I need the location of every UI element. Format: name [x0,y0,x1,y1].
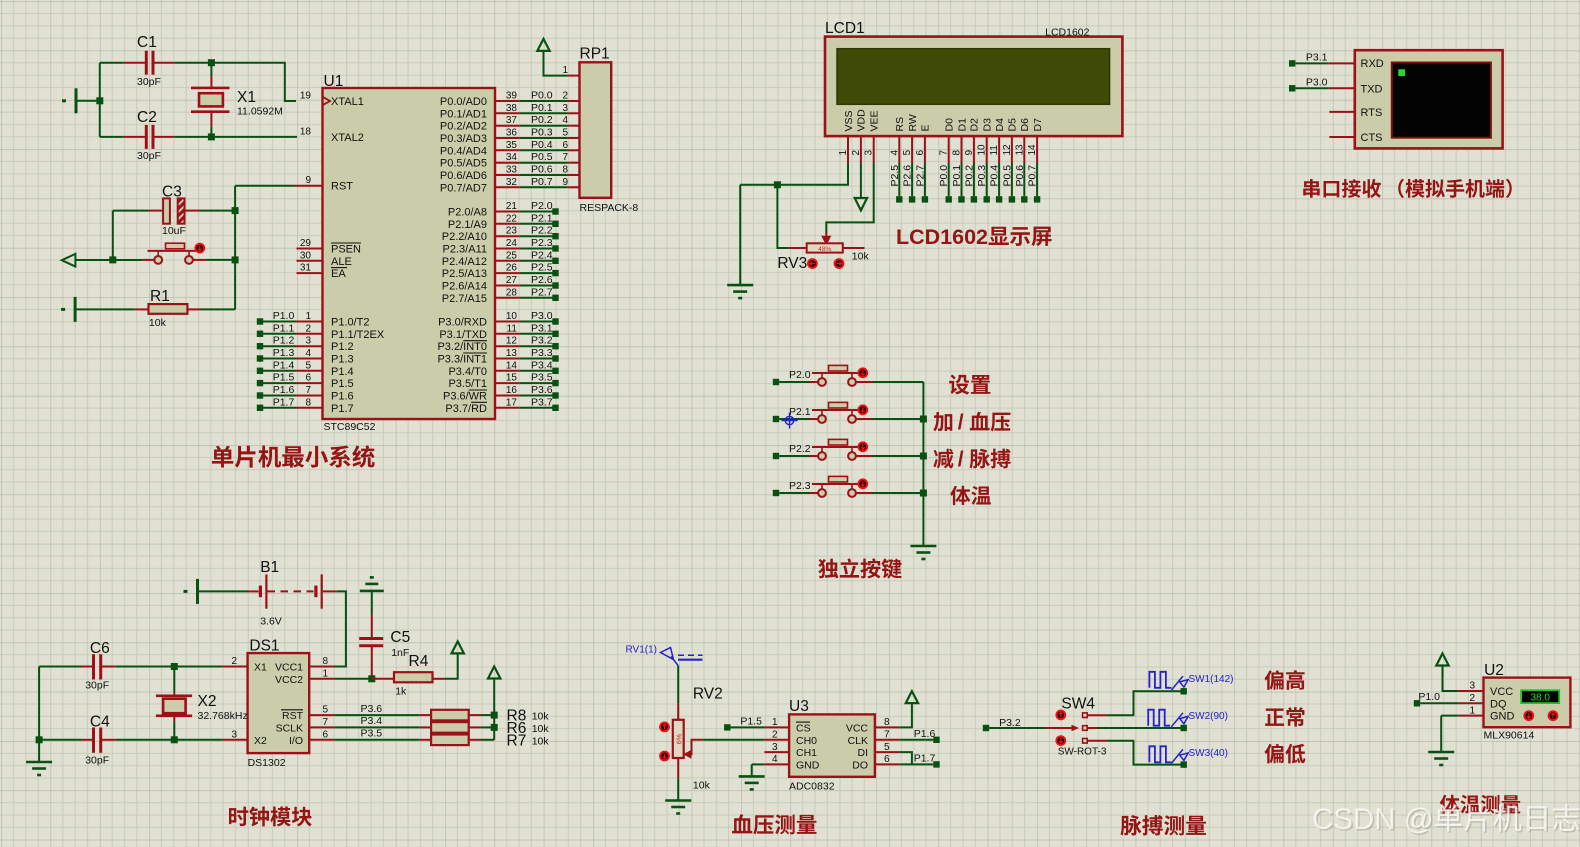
svg-text:R4: R4 [409,653,429,670]
node P0.4 terminal (LCD) [996,196,1002,202]
svg-text:6: 6 [562,140,568,151]
svg-text:30: 30 [300,250,312,261]
junction reset node [109,256,116,263]
rotary switch SW4 pole [1047,725,1087,732]
wire R8 to bus [481,714,494,716]
node P0.2 terminal (LCD) [971,196,977,202]
wire C3 left [113,210,149,212]
wire net P1.7 [263,407,296,409]
svg-text:38.0: 38.0 [1530,692,1550,703]
C1 right lead [154,62,174,64]
wire power to U2 VCC [1443,666,1459,692]
svg-text:P3.7/RD: P3.7/RD [445,403,487,415]
svg-text:P0.7: P0.7 [1027,165,1039,187]
svg-text:D6: D6 [1019,118,1031,132]
pulse generator icon SW1 [1149,672,1171,688]
node P3.1 terminal [552,331,558,337]
wire net P1.2 [263,345,296,347]
U1 P0.0 pin stub [495,100,520,102]
svg-text:11.0592M: 11.0592M [237,106,283,118]
svg-text:39: 39 [506,91,518,102]
svg-text:21: 21 [506,201,518,212]
junction key bus 3 [920,490,927,497]
svg-text:3: 3 [305,336,311,347]
power symbol VCC (RP1) [537,39,549,51]
svg-text:37: 37 [506,115,518,126]
wire C1 to XTAL1 [174,63,296,101]
power symbol VCC (pullups) [488,667,500,679]
VT1 TXD pin stub [1329,87,1355,89]
svg-text:VEE: VEE [869,110,881,131]
R7 right lead [469,739,481,741]
wire power to RP1 pin 1 [544,51,568,76]
svg-text:P1.2: P1.2 [273,335,295,347]
label 偏低 [1265,744,1306,764]
U1 P1.6 pin stub [296,395,323,397]
svg-text:CSDN @: CSDN @ [1312,803,1434,836]
U1 RST pin stub [295,185,323,187]
svg-text:24: 24 [506,238,518,249]
junction RST/C3 [232,207,239,214]
svg-text:LCD1602: LCD1602 [896,225,988,249]
ground (RV2) [665,801,691,814]
node SW1 terminal [1181,688,1187,694]
svg-text:STC89C52: STC89C52 [324,421,376,433]
generator arrow SW3 [1171,749,1188,763]
svg-text:P2.0/A8: P2.0/A8 [448,207,487,219]
svg-text:P0.6: P0.6 [531,164,553,176]
svg-text:SW4: SW4 [1061,696,1095,713]
wire net P0.3 [520,137,568,139]
node P1.7 terminal [933,761,939,767]
svg-text:CH0: CH0 [796,735,817,747]
VT1 RTS pin stub [1329,111,1354,113]
svg-text:P3.4: P3.4 [531,359,553,371]
svg-text:P0.4: P0.4 [989,165,1001,187]
push button RESET [143,243,206,264]
node P3.5 terminal [552,380,558,386]
svg-text:P3.6/WR: P3.6/WR [443,391,487,403]
wire C4 to DS1 X2 [116,739,223,741]
pulse generator icon SW2 [1148,710,1170,726]
svg-text:SW2(90): SW2(90) [1189,711,1228,722]
wire terminal to battery [199,590,249,592]
svg-text:P0.0: P0.0 [531,90,553,102]
node P1.0 terminal [1414,700,1420,706]
label （模拟手机端） [1398,179,1511,198]
DS1 VCC2 pin stub [309,678,334,680]
wire net P0.6 [520,174,568,176]
RP1 pin 1 stub [568,75,580,77]
label 单片机最小系统 [212,445,375,467]
IC U1 STC89C52 body [323,88,496,419]
IC DS1302 body [248,653,310,753]
power rail terminal (battery) [184,579,198,604]
wire reset button to trunk [206,259,235,261]
wire net P3.0 [1295,87,1328,89]
U1 P3.2 pin stub [495,345,520,347]
wire C2 to XTAL2 [174,136,297,138]
wire net P0.0 [520,100,568,102]
node P2.2 terminal (key) [773,453,779,459]
svg-text:D3: D3 [982,118,994,132]
svg-text:17: 17 [506,397,518,408]
wire net P1.6 [263,395,296,397]
svg-text:/: / [958,411,964,434]
resistor R8 body [431,710,469,721]
DS1 X1 pin stub [223,666,248,668]
svg-text:U3: U3 [789,698,809,715]
svg-text:P0.5: P0.5 [1001,165,1013,187]
wire terminal to R1 [77,308,135,310]
svg-text:C2: C2 [137,109,157,126]
SW4 contact 1 [1083,713,1088,718]
wire net P0.0 (LCD) [948,163,950,196]
svg-text:7: 7 [323,717,329,728]
wire U2 GND drop [1440,716,1442,752]
svg-text:P3.1: P3.1 [1306,52,1328,64]
svg-text:P3.6: P3.6 [531,384,553,396]
U3 CLK pin stub [875,739,900,741]
svg-text:P2.6/A14: P2.6/A14 [442,281,487,293]
svg-text:P0.2: P0.2 [963,165,975,187]
svg-text:D1: D1 [956,118,968,132]
svg-text:3: 3 [562,103,568,114]
wire battery to DS1 VCC1 [334,591,346,666]
svg-text:P3.1: P3.1 [531,322,553,334]
svg-text:RTS: RTS [1361,107,1383,119]
svg-text:P3.2: P3.2 [531,335,553,347]
crystal X2 [156,692,192,722]
R4 left lead [372,678,394,680]
wire to C2 left [100,136,124,138]
svg-text:P3.7: P3.7 [531,396,553,408]
wire net P0.1 (LCD) [961,163,963,196]
junction key bus 1 [920,416,927,423]
svg-text:X1: X1 [237,89,256,106]
wire net P1.1 [263,333,296,335]
power symbol VCC (R4) [452,641,464,653]
node P2.2 terminal [552,233,558,239]
svg-text:25: 25 [506,250,518,261]
svg-text:9: 9 [562,177,568,188]
wire net P3.2 [989,727,1047,729]
junction C5/R4 [368,675,375,682]
power rail terminal (XTAL net) [62,88,76,113]
svg-text:P2.7: P2.7 [914,165,926,187]
svg-text:VCC: VCC [846,722,869,734]
node P2.5 terminal (LCD) [896,196,902,202]
B1 left lead [249,590,259,592]
svg-text:6: 6 [305,373,311,384]
svg-text:X2: X2 [254,735,267,747]
svg-text:DS1302: DS1302 [248,757,286,769]
svg-text:EA: EA [331,268,346,280]
label 加 (加 / 血压) [933,412,952,431]
wire net P3.6 [520,395,553,397]
junction C1/C2 trunk [96,97,103,104]
svg-text:D2: D2 [969,118,981,132]
svg-text:28: 28 [506,287,518,298]
svg-text:P1.2: P1.2 [331,341,354,353]
LCD1 pin 5 stub [911,136,913,163]
wire net P3.1 [1295,62,1328,64]
svg-text:VCC2: VCC2 [275,674,303,686]
RV2 bottom lead [677,758,679,779]
wire net P3.1 [520,333,553,335]
U1 P0.6 pin stub [495,174,520,176]
label 脉搏 [970,449,1011,469]
svg-text:CLK: CLK [848,735,868,747]
wire C6/C4 ground trunk [38,667,40,763]
R8 left lead [420,714,431,716]
svg-text:P2.2: P2.2 [789,443,811,455]
U3 DO pin stub [875,763,900,765]
node P2.3 terminal [552,245,558,251]
svg-text:10k: 10k [532,736,550,748]
svg-text:VDD: VDD [856,109,868,132]
U1 P1.5 pin stub [296,382,323,384]
svg-text:10k: 10k [693,780,711,792]
node SW3 terminal [1181,761,1187,767]
svg-text:P1.5: P1.5 [740,715,762,727]
svg-text:10: 10 [977,144,988,156]
RV3 decrease button [808,259,817,268]
svg-text:3: 3 [864,150,875,156]
svg-text:7: 7 [562,152,568,163]
U2 DQ pin stub [1459,702,1484,704]
svg-text:8: 8 [952,150,963,156]
reset button actuator dot [195,244,204,253]
U1 P1.2 pin stub [296,345,323,347]
svg-text:RXD: RXD [1361,58,1384,70]
DS1 pin stub [309,714,334,716]
svg-text:P1.6: P1.6 [273,384,295,396]
R8 right lead [469,714,481,716]
svg-text:P2.3: P2.3 [531,237,553,249]
svg-text:3.6V: 3.6V [260,616,282,628]
U1 P0.1 pin stub [495,112,520,114]
svg-text:ALE: ALE [331,256,352,268]
U1 P2.1 pin stub [495,223,520,225]
svg-text:SW1(142): SW1(142) [1189,674,1234,685]
label 脉搏测量 [1120,815,1206,835]
svg-text:P2.0: P2.0 [531,200,553,212]
svg-text:P1.1: P1.1 [273,322,295,334]
label 独立按键 [818,558,901,578]
C2 left lead [124,136,145,138]
svg-text:P0.1: P0.1 [951,165,963,187]
node P0.7 terminal (LCD) [1034,196,1040,202]
node P3.1 terminal [1289,60,1295,66]
potentiometer RV2 body [673,720,684,758]
wire VCC2 to junction [334,678,372,680]
node P1.5 terminal [257,380,263,386]
wire R4 to power [445,653,458,678]
wire X1 bottom stub [210,127,212,137]
svg-text:P2.1/A9: P2.1/A9 [448,219,487,231]
svg-text:10uF: 10uF [162,225,186,237]
wire P2.2 to key [779,455,809,457]
RP1 pin stub 4 [568,125,580,127]
svg-text:13: 13 [1014,144,1025,156]
SW4 up button [1056,711,1065,720]
node P1.4 terminal [257,368,263,374]
RV2 increase button [660,723,669,732]
wire net P1.3 [263,358,296,360]
push button key P2.3 [810,476,873,497]
node P2.6 terminal (LCD) [909,196,915,202]
svg-text:C5: C5 [390,629,410,646]
C6 left lead [81,666,92,668]
U1 P2.3 pin stub [495,248,520,250]
junction RST/button [232,256,239,263]
junction VSS/RV3 [774,181,781,188]
svg-text:4: 4 [889,150,900,156]
svg-text:DO: DO [852,759,868,771]
key P2.0 actuator dot [858,368,867,377]
U1 P3.3 pin stub [495,358,520,360]
junction key bus 2 [920,453,927,460]
svg-text:RP1: RP1 [580,46,610,63]
svg-text:P2.0: P2.0 [789,369,811,381]
svg-text:P0.7/AD7: P0.7/AD7 [440,182,487,194]
U1 P1.7 pin stub [296,407,323,409]
R1 right lead [187,308,201,310]
C3 right lead [185,210,201,212]
svg-text:P0.3/AD3: P0.3/AD3 [440,133,487,145]
svg-text:P2.3/A11: P2.3/A11 [443,244,487,256]
wire net P0.4 (LCD) [998,163,1000,196]
U1 P1.3 pin stub [296,358,323,360]
U1 pin 19 clock chevron [323,97,331,105]
svg-text:P2.6: P2.6 [531,274,553,286]
svg-text:P2.4/A12: P2.4/A12 [442,256,487,268]
junction X1 top [208,59,215,66]
node P2.7 terminal [552,295,558,301]
VT1 RXD pin stub [1329,62,1355,64]
svg-text:SCLK: SCLK [276,722,303,734]
RP1 pin stub 3 [568,112,580,114]
wire GND pin [752,763,765,765]
watermark 单片机日志 [1435,804,1579,831]
svg-text:P0.5/AD5: P0.5/AD5 [440,158,487,170]
U1 P0.4 pin stub [495,149,520,151]
svg-text:RV1(1): RV1(1) [626,645,658,656]
svg-text:P1.7: P1.7 [273,396,295,408]
ground (LCD VSS) [727,285,753,298]
wire VSS to ground rail [740,163,848,185]
wire net P1.6 [900,739,934,741]
svg-text:I/O: I/O [289,735,303,747]
label 减 (减 / 脉搏) [933,449,953,469]
label 正常 [1265,707,1304,727]
svg-text:8: 8 [562,165,568,176]
svg-text:P0.5: P0.5 [531,151,553,163]
svg-text:8: 8 [305,397,311,408]
svg-text:10k: 10k [532,723,550,735]
DS1 X2 pin stub [223,739,248,741]
svg-text:35: 35 [506,140,518,151]
svg-text:RV2: RV2 [693,686,723,703]
svg-text:22: 22 [506,213,518,224]
C2 right lead [154,136,174,138]
U2 increase button [1549,711,1558,720]
label 体温测量 [1440,795,1520,814]
LCD1 pin 8 stub [961,136,963,163]
wire net P2.0 [520,211,553,213]
svg-text:6: 6 [323,729,329,740]
svg-text:P1.7: P1.7 [331,403,354,415]
wire X2 bottom [173,722,175,740]
wire net P1.4 [263,370,296,372]
LCD1 pin 1 stub [847,136,849,163]
svg-text:P3.5: P3.5 [531,372,553,384]
svg-text:P2.1: P2.1 [789,406,811,418]
resistor R4 body [394,672,433,682]
svg-text:3: 3 [231,729,237,740]
svg-text:1: 1 [562,65,568,76]
svg-text:48%: 48% [818,246,831,253]
LCD1 pin 9 stub [973,136,975,163]
svg-text:P0.4: P0.4 [531,139,553,151]
wire trunk to C4 [39,739,81,741]
svg-text:P3.3: P3.3 [531,347,553,359]
svg-text:36: 36 [506,128,518,139]
IC U3 ADC0832 body [789,714,875,776]
node P3.0 terminal [1289,85,1295,91]
capacitor C1 plates [146,51,153,75]
node P1.3 terminal [257,355,263,361]
svg-text:/: / [958,448,964,471]
wire VEE to RV3 wiper [826,163,873,232]
node P3.0 terminal [552,318,558,324]
push button key P2.1 [810,402,873,423]
wire net P1.7 [900,763,934,765]
power symbol VCC (U3) [906,691,918,703]
svg-text:5: 5 [902,150,913,156]
svg-text:MLX90614: MLX90614 [1484,730,1535,742]
C4 left lead [81,739,92,741]
U1 P0.2 pin stub [495,125,520,127]
svg-text:11: 11 [989,145,1000,156]
SW4 contact 1 lead [1087,714,1106,716]
svg-text:32.768kHz: 32.768kHz [198,710,248,722]
wire R1 to trunk [201,308,235,310]
U2 GND pin stub [1459,715,1484,717]
svg-text:R1: R1 [150,288,170,305]
svg-text:2: 2 [562,91,568,102]
push button key P2.0 [810,365,873,386]
svg-text:1nF: 1nF [391,647,409,659]
LCD1 pin 2 stub [860,136,862,163]
R4 right lead [433,678,445,680]
junction X2 bottom [171,736,178,743]
wire net P0.3 (LCD) [986,163,988,196]
wire X1 top stub [210,63,212,76]
wire net P3.7 [520,407,553,409]
R1 left lead [135,308,149,310]
node SW2 terminal [1181,725,1187,731]
U1 P2.0 pin stub [495,211,520,213]
svg-text:30pF: 30pF [85,755,109,767]
wire net P2.6 (LCD) [911,163,913,196]
label 血压 [970,412,1011,432]
junction R6 bus [491,724,498,731]
node P0.3 terminal (LCD) [984,196,990,202]
svg-text:10k: 10k [149,317,167,329]
LCD1 pin 14 stub [1036,136,1038,163]
